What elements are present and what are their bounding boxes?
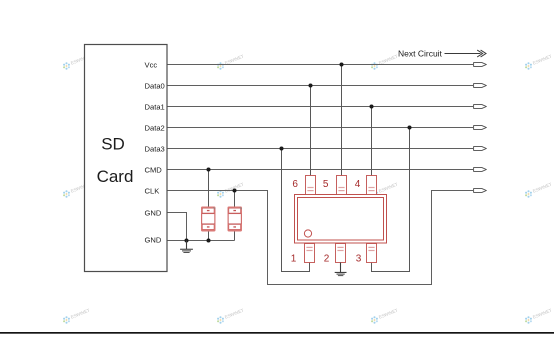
- wire Data2: [168, 127, 474, 129]
- ground (U1 pin 2): [335, 263, 347, 277]
- wire U1 pin 5 to Vcc: [341, 65, 343, 177]
- wire U1 pin 1 to Data3: [282, 149, 310, 272]
- junction GND rail / ground: [185, 239, 189, 243]
- wire CMD: [168, 169, 474, 171]
- pin 1 indicator circle: [304, 230, 311, 237]
- svg-text:2: 2: [324, 254, 330, 265]
- value label R2: [233, 210, 236, 211]
- off-page connector Data1: [474, 105, 487, 109]
- svg-text:Data1: Data1: [145, 103, 165, 112]
- wire GND pin 1 of SD card: [168, 213, 187, 241]
- svg-text:Data0: Data0: [145, 82, 165, 91]
- svg-text:SD: SD: [101, 135, 125, 154]
- U1 pin 2: [336, 244, 346, 263]
- wire U1 pin 3 to Data2: [372, 128, 410, 272]
- IC U1 body: [295, 195, 387, 244]
- SD card block: [85, 45, 168, 272]
- wire Data3: [168, 148, 474, 150]
- junction CMD / R1: [207, 168, 211, 172]
- junction Data2 / pin 3 drop: [408, 126, 412, 130]
- svg-text:Data3: Data3: [145, 145, 165, 154]
- svg-text:GND: GND: [145, 209, 162, 218]
- value label R1: [207, 210, 210, 211]
- wire R1 bottom to GND rail: [208, 232, 210, 241]
- wire R1 top to CMD: [208, 170, 210, 208]
- U1 pin 6: [306, 176, 316, 195]
- junction Vcc / pin 5: [340, 63, 344, 67]
- off-page connector Data0: [474, 84, 487, 88]
- svg-text:Vcc: Vcc: [145, 61, 158, 70]
- wire Data1: [168, 106, 474, 108]
- junction CLK / R2: [233, 189, 237, 193]
- wire CLK routed around U1: [168, 191, 474, 285]
- svg-text:CLK: CLK: [145, 187, 160, 196]
- U1 pin 1: [305, 244, 315, 263]
- wire Vcc: [168, 64, 474, 66]
- svg-text:6: 6: [292, 179, 298, 190]
- off-page connector Vcc: [474, 63, 487, 67]
- off-page connector CLK: [474, 189, 487, 193]
- U1 pin 4: [367, 176, 377, 195]
- svg-text:CMD: CMD: [145, 166, 163, 175]
- off-page connector CMD: [474, 168, 487, 172]
- svg-text:5: 5: [323, 179, 329, 190]
- junction Data1 / pin 4: [370, 105, 374, 109]
- resistor R1: [201, 207, 216, 232]
- svg-text:Data2: Data2: [145, 124, 165, 133]
- wire GND rail: [168, 240, 235, 242]
- bottom frame line (decorative): [0, 332, 554, 334]
- arrow Next Circuit: [445, 50, 487, 57]
- wire U1 pin 4 to Data1: [371, 107, 373, 177]
- U1 pin 5: [337, 176, 347, 195]
- svg-text:Next Circuit: Next Circuit: [398, 49, 443, 59]
- svg-text:Card: Card: [97, 167, 134, 186]
- wire U1 pin 2 to ground: [340, 263, 342, 273]
- wire R2 bottom to GND rail: [234, 232, 236, 241]
- U1 pin 3: [367, 244, 377, 263]
- junction Data3 / pin 1 drop: [280, 147, 284, 151]
- svg-text:1: 1: [291, 254, 297, 265]
- svg-text:4: 4: [355, 179, 361, 190]
- junction GND rail / R1: [207, 239, 211, 243]
- off-page connector Data2: [474, 126, 487, 130]
- svg-text:GND: GND: [145, 236, 162, 245]
- svg-text:3: 3: [356, 254, 362, 265]
- wire R2 top to CLK: [234, 191, 236, 208]
- resistor R2: [228, 207, 243, 232]
- wire U1 pin 6 to Data0: [310, 86, 312, 177]
- ground (SD card): [180, 241, 193, 253]
- off-page connector Data3: [474, 147, 487, 151]
- junction Data0 / pin 6: [309, 84, 313, 88]
- wire Data0: [168, 85, 474, 87]
